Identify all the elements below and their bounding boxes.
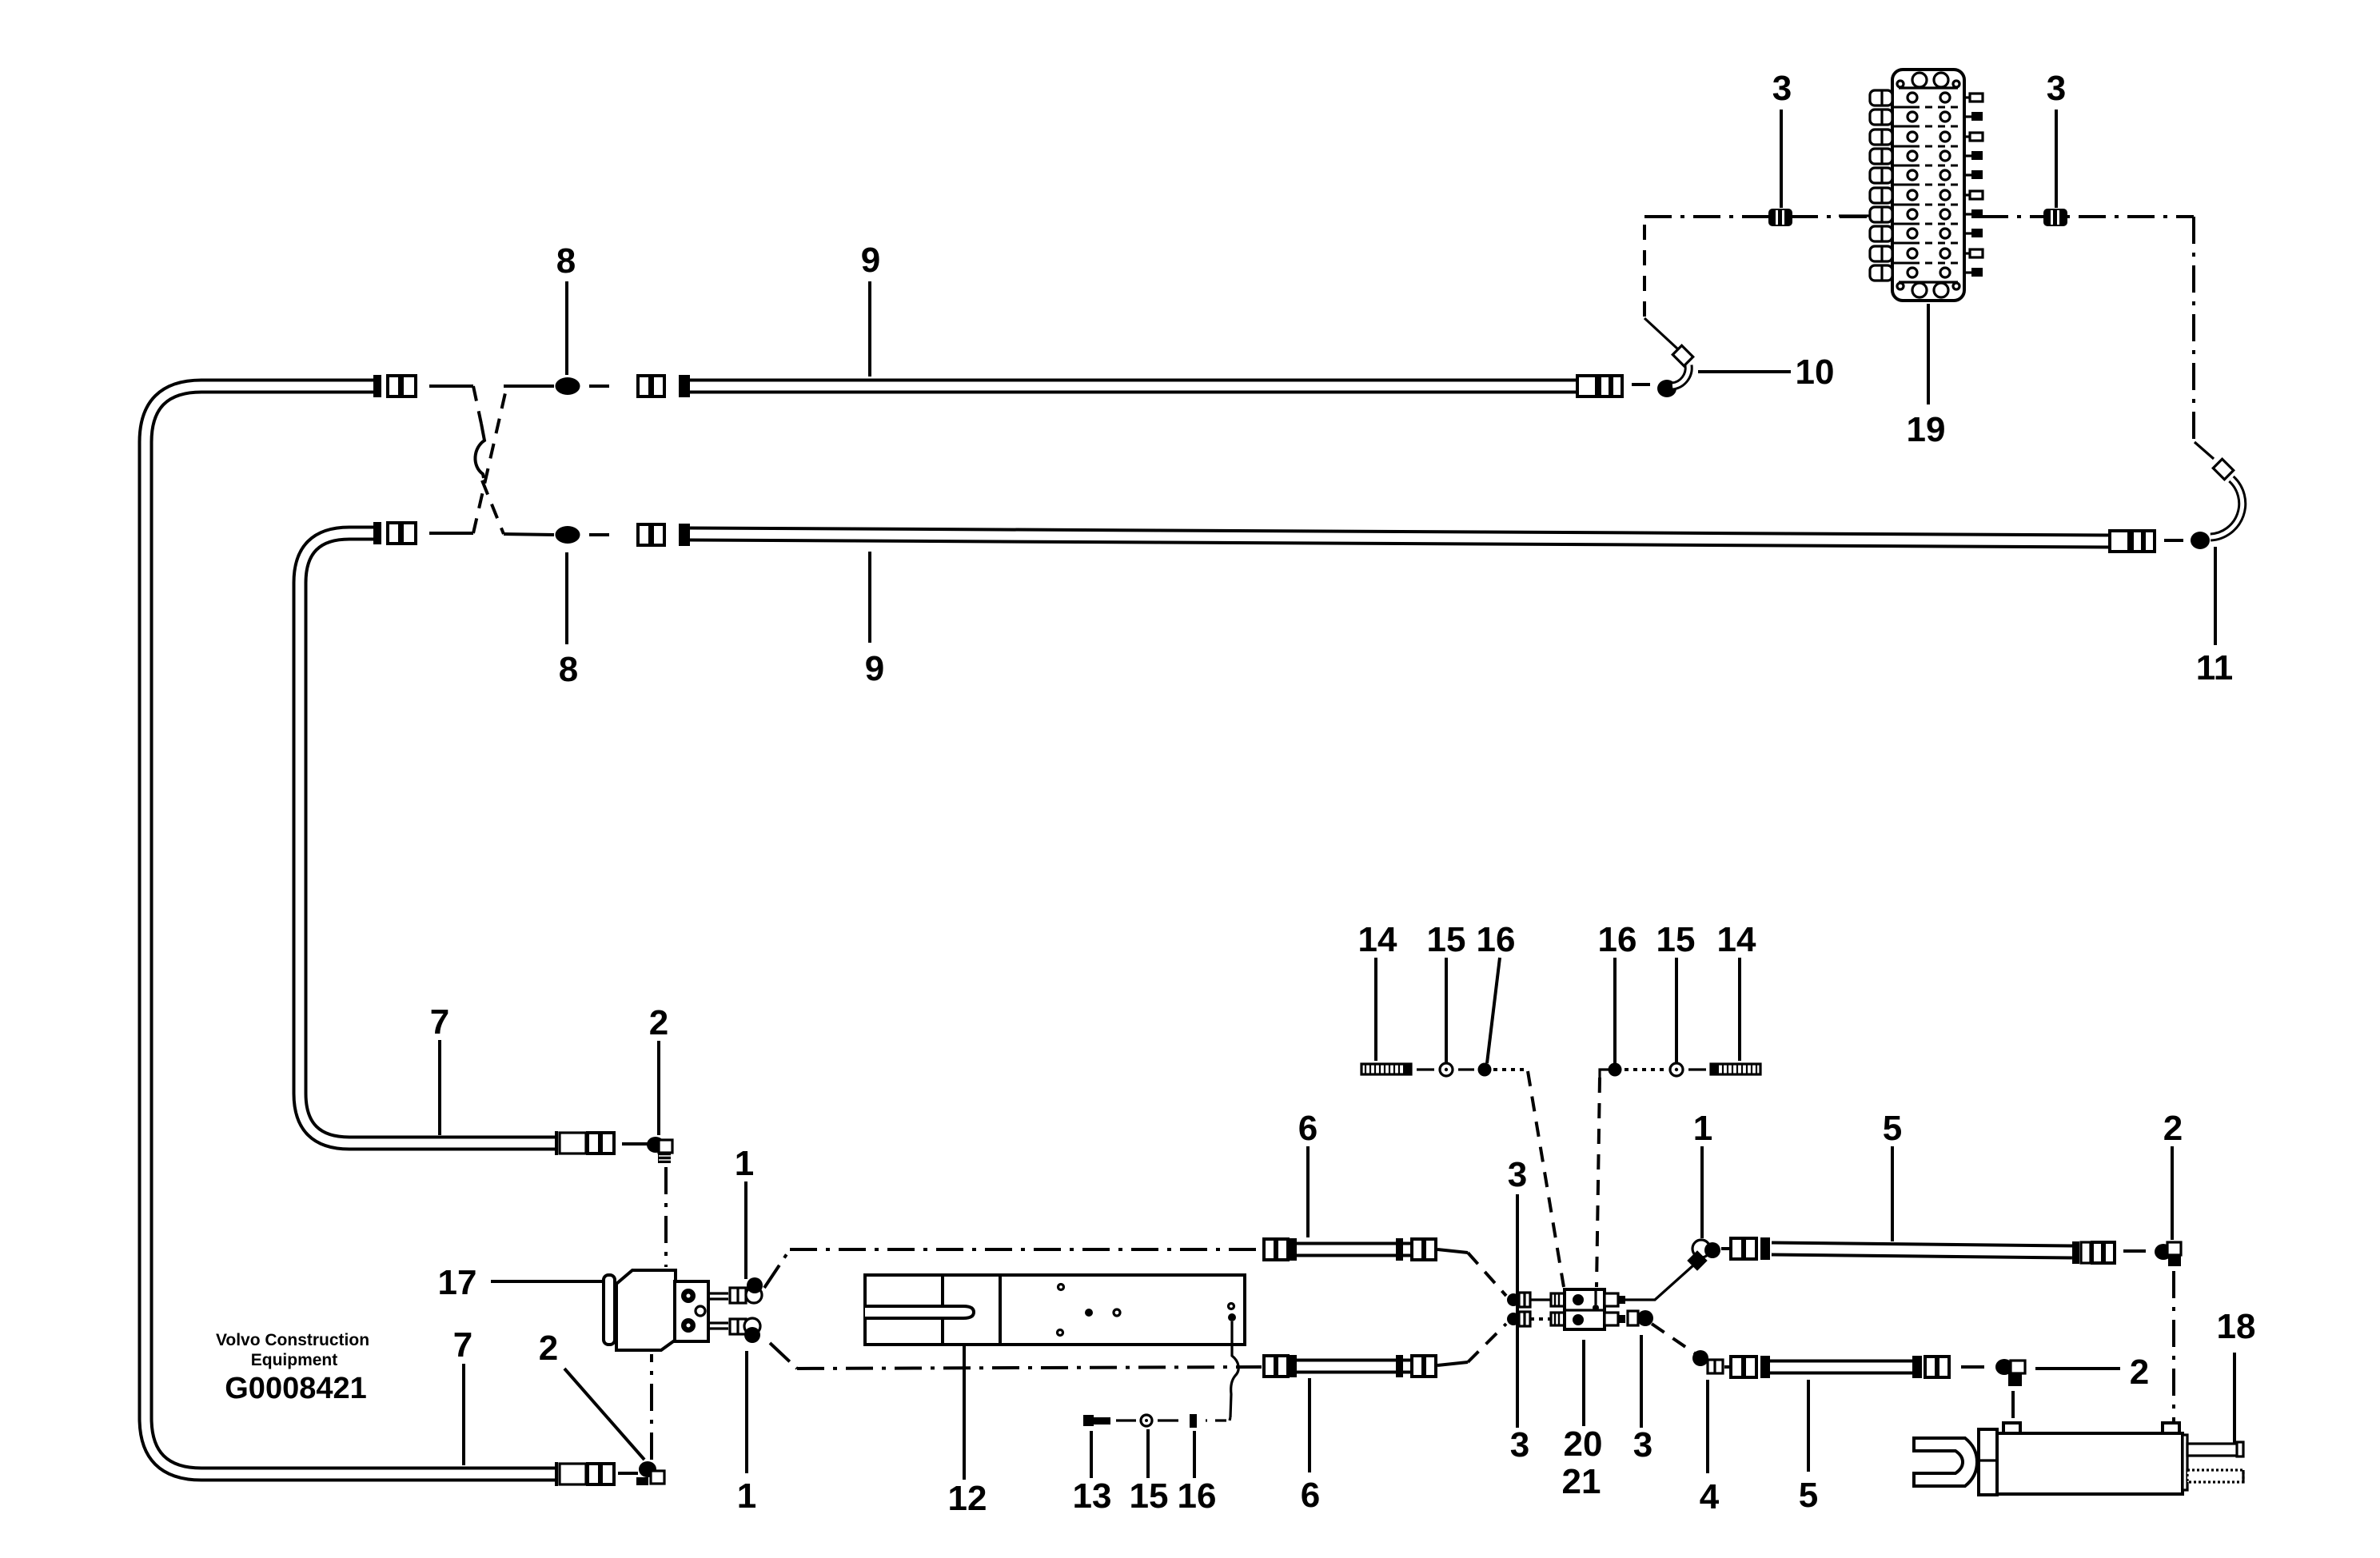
fitting hose 5 upper right bbox=[2072, 1241, 2115, 1264]
wire dash 14-15 (left) bbox=[1417, 1068, 1434, 1070]
wire dash 8 to hose 9 (bottom) bbox=[589, 533, 609, 536]
wire 16 right to valve 20 (dashed vertical) bbox=[1600, 1070, 1609, 1078]
svg-text:3: 3 bbox=[1772, 69, 1792, 108]
wire elbow 3 to valve port (lower, dotted) bbox=[1530, 1317, 1551, 1321]
fitting on hose 7 upper end bbox=[556, 1131, 614, 1155]
wire from top fitting to crossing bbox=[429, 385, 473, 388]
cylinder 12 divider lines bbox=[941, 1275, 944, 1345]
hose 5 (upper) bbox=[1772, 1249, 2072, 1252]
cylinder 12 body bbox=[865, 1275, 1245, 1345]
wire 16 to valve 20 (dotted then dashed diagonal) bbox=[1493, 1068, 1527, 1071]
elbow 2 (top right) bbox=[2155, 1242, 2181, 1266]
svg-text:16: 16 bbox=[1477, 920, 1516, 959]
wire hose 6 upper to elbow 3 bbox=[1437, 1249, 1468, 1253]
fitting on hose 7 lower end bbox=[556, 1462, 614, 1486]
svg-text:Volvo Construction: Volvo Construction bbox=[216, 1331, 369, 1349]
hose 6 (lower) bbox=[1287, 1359, 1412, 1374]
stud 14 (right) bbox=[1711, 1063, 1760, 1075]
elbow 3 (lower left of valve 20) bbox=[1507, 1312, 1530, 1326]
wire crossing to fitting 8 (top) bbox=[504, 385, 554, 388]
wire crossing to fitting 8 (bottom) bbox=[504, 534, 554, 535]
svg-text:Equipment: Equipment bbox=[251, 1351, 338, 1369]
wire dash hose7 to elbow 2 (upper) bbox=[622, 1142, 654, 1146]
wire fitting 3 to elbow 4 (dashed) bbox=[1652, 1324, 1695, 1353]
fitting on hose 9 left end (upper) bbox=[638, 375, 690, 397]
svg-text:3: 3 bbox=[1508, 1155, 1527, 1194]
elbow 2 (middle right) bbox=[1995, 1359, 2025, 1386]
wire elbow 2 to swivel bottom (dash-dot) bbox=[650, 1354, 653, 1460]
elbow 2 (lower left) bbox=[636, 1461, 664, 1485]
svg-text:18: 18 bbox=[2217, 1307, 2256, 1346]
wire dash hose 5 lower to elbow 2 bbox=[1961, 1365, 1984, 1369]
wire hexagon upper (dash-dot over cylinder 12) bbox=[790, 1248, 1262, 1251]
wire dash elbow 4 to hose 5 lower bbox=[1724, 1365, 1730, 1369]
svg-text:2: 2 bbox=[2130, 1353, 2149, 1392]
wire corner to pin 16 (dashed) bbox=[1230, 1417, 1230, 1421]
fitting hose 5 upper left bbox=[1731, 1237, 1770, 1260]
svg-text:11: 11 bbox=[2196, 648, 2234, 687]
swivel 17 body bbox=[616, 1270, 676, 1350]
wire elbow 3 to valve port (upper) bbox=[1530, 1298, 1551, 1301]
elbow 11 bbox=[2191, 459, 2242, 549]
wire dash 13 to 15 bbox=[1116, 1419, 1136, 1421]
wire dash 8 to hose 9 (top) bbox=[589, 385, 609, 388]
swivel 17 flange bbox=[604, 1275, 615, 1345]
elbow 3 (upper left of valve 20) bbox=[1507, 1293, 1530, 1307]
cylinder 18 left boss bbox=[2003, 1423, 2020, 1433]
fitting 8 (bottom) bbox=[556, 526, 580, 544]
svg-text:9: 9 bbox=[861, 241, 880, 280]
wire elbow 2 to swivel top (dash-dot) bbox=[664, 1167, 668, 1267]
svg-text:15: 15 bbox=[1130, 1476, 1169, 1516]
svg-text:20: 20 bbox=[1564, 1425, 1603, 1464]
svg-text:19: 19 bbox=[1907, 410, 1946, 449]
washer 15 (small) bbox=[1141, 1415, 1152, 1426]
svg-text:9: 9 bbox=[865, 649, 884, 688]
svg-text:3: 3 bbox=[1633, 1425, 1652, 1464]
svg-text:1: 1 bbox=[1693, 1109, 1712, 1148]
fitting on hose 7 end (second run) bbox=[373, 522, 416, 544]
valve 20 right port stub (lower) bbox=[1605, 1313, 1625, 1325]
fitting 3 (left of valve 19) bbox=[1768, 209, 1792, 226]
svg-text:G0008421: G0008421 bbox=[225, 1372, 367, 1405]
cylinder 18 clevis fork bbox=[1914, 1438, 1977, 1486]
elbow 1 (at swivel, lower) bbox=[730, 1318, 760, 1343]
pin 16 bbox=[1190, 1414, 1197, 1428]
svg-text:1: 1 bbox=[737, 1476, 756, 1516]
wire dash hose9 to elbow 10 bbox=[1632, 383, 1650, 386]
hose 7 (lower long hose, left vertical + bottom run) bbox=[146, 386, 556, 1474]
wire dash 15-14 (right) bbox=[1688, 1068, 1706, 1070]
svg-text:7: 7 bbox=[453, 1325, 472, 1365]
wire top center line (dash-dot left of valve 19) bbox=[1644, 215, 1869, 218]
cylinder 18 upper rod bbox=[2187, 1442, 2243, 1456]
svg-text:6: 6 bbox=[1301, 1476, 1320, 1515]
fitting 8 (top) bbox=[556, 377, 580, 395]
svg-text:2: 2 bbox=[649, 1003, 668, 1042]
fitting on hose 9 right end (lower) bbox=[2110, 530, 2155, 552]
svg-text:12: 12 bbox=[948, 1479, 987, 1518]
wire dash 15 to 16 bbox=[1158, 1419, 1178, 1421]
cylinder 18 lower rod (threaded) bbox=[2187, 1470, 2243, 1482]
cylinder 18 right boss bbox=[2163, 1423, 2179, 1433]
svg-text:2: 2 bbox=[539, 1329, 558, 1368]
swivel port stub (lower) bbox=[708, 1323, 728, 1329]
svg-text:5: 5 bbox=[1883, 1109, 1902, 1148]
valve 20/21 body bbox=[1565, 1289, 1605, 1329]
fitting hose 6 lower left bbox=[1264, 1355, 1297, 1377]
svg-text:15: 15 bbox=[1427, 920, 1466, 959]
wire top center line (dash-dot right of valve 19) bbox=[1981, 215, 2194, 218]
wire crossing (dashed X with hop) bbox=[473, 386, 481, 424]
cylinder 18 end cap bbox=[2183, 1435, 2187, 1490]
cylinder 18 rod-end collar bbox=[1979, 1429, 1997, 1495]
swivel port stub (upper) bbox=[708, 1293, 728, 1299]
fitting hose 6 upper right bbox=[1396, 1238, 1436, 1261]
wire from cylinder 12 port dot down (with hop) bbox=[1230, 1321, 1238, 1417]
wire elbow 2 to cylinder 18 boss (dash-dot) bbox=[2172, 1271, 2175, 1421]
wire hexagon upper diagonal from elbow 1 bbox=[764, 1249, 790, 1288]
svg-text:2: 2 bbox=[2163, 1109, 2183, 1148]
fitting hose 5 lower left bbox=[1731, 1356, 1770, 1378]
fitting 3 (right of valve 20) bbox=[1628, 1310, 1653, 1326]
fitting on hose 7 end (top run) bbox=[373, 375, 416, 397]
wire hexagon lower diagonal from elbow 1 bbox=[770, 1343, 797, 1369]
svg-text:7: 7 bbox=[430, 1002, 449, 1042]
wire hexagon lower (dash-dot under cylinder 12) bbox=[797, 1367, 1262, 1369]
washer 15 (left) bbox=[1440, 1063, 1453, 1076]
fitting hose 5 lower right bbox=[1912, 1356, 1949, 1378]
valve 20 left port stub (upper) bbox=[1551, 1293, 1565, 1306]
wire right corner vertical (dash-dot) bbox=[2192, 217, 2195, 439]
wire dash elbow 11 to hose 9 bbox=[2164, 539, 2183, 542]
svg-text:3: 3 bbox=[1510, 1425, 1529, 1464]
svg-text:17: 17 bbox=[438, 1263, 477, 1302]
washer 15 (right) bbox=[1670, 1063, 1683, 1076]
wire elbow 2 to cylinder 18 left boss (dash-dot) bbox=[2011, 1391, 2015, 1421]
svg-text:16: 16 bbox=[1178, 1476, 1217, 1516]
elbow 10 bbox=[1657, 345, 1693, 397]
svg-text:14: 14 bbox=[1358, 920, 1397, 959]
wire from second fitting to crossing bbox=[429, 532, 473, 535]
stud 14 (left) bbox=[1361, 1063, 1411, 1075]
cylinder 18 barrel bbox=[1997, 1433, 2183, 1494]
cylinder 12 rod slot bbox=[865, 1306, 974, 1318]
fitting 3 (right of valve 19) bbox=[2043, 209, 2067, 226]
svg-text:21: 21 bbox=[1562, 1462, 1601, 1501]
elbow 4 bbox=[1692, 1350, 1723, 1373]
elbow 2 (upper left) bbox=[647, 1137, 672, 1163]
wire dotted 16-15 (right) bbox=[1625, 1068, 1664, 1071]
wire dash elbow 1 to hose 5 bbox=[1721, 1247, 1729, 1250]
swivel 17 port block bbox=[675, 1281, 708, 1341]
valve 19 left plugs bbox=[1870, 90, 1892, 281]
screw 13 bbox=[1083, 1415, 1110, 1426]
svg-text:10: 10 bbox=[1796, 353, 1835, 392]
svg-text:8: 8 bbox=[556, 241, 576, 281]
elbow 1 (right) bbox=[1687, 1240, 1720, 1271]
wire valve 20 upper port to elbow 1 bbox=[1625, 1265, 1693, 1300]
valve 20 right port stub (upper) bbox=[1605, 1293, 1625, 1306]
ball 16 (right) bbox=[1609, 1063, 1622, 1077]
svg-text:16: 16 bbox=[1598, 920, 1637, 959]
fitting hose 6 lower right bbox=[1396, 1355, 1436, 1377]
valve 19 right nipples bbox=[1964, 94, 1983, 277]
fitting hose 6 upper left bbox=[1264, 1238, 1297, 1261]
cylinder 12 detail dots bbox=[1058, 1285, 1064, 1290]
hose 9 (lower long hose) bbox=[690, 534, 2110, 541]
wire corner to elbow 11 bbox=[2195, 442, 2214, 459]
valve 19 port circles bbox=[1908, 93, 1950, 277]
hose 6 (upper) bbox=[1287, 1242, 1412, 1257]
wire riser (vertical dashed) bbox=[1643, 222, 1646, 317]
elbow 1 (at swivel, upper) bbox=[730, 1277, 763, 1303]
fitting on hose 9 right end (upper) bbox=[1577, 375, 1622, 397]
svg-text:8: 8 bbox=[559, 650, 578, 689]
hose 7 (upper hose, second vertical + middle run) bbox=[300, 533, 556, 1143]
wire dash 15-16 (left) bbox=[1458, 1068, 1474, 1070]
svg-text:14: 14 bbox=[1717, 920, 1756, 959]
hose 9 (upper long hose) bbox=[690, 379, 1577, 394]
valve block 19 bbox=[1892, 70, 1964, 301]
svg-text:3: 3 bbox=[2047, 69, 2066, 108]
wire dash hose7 lower to elbow 2 bbox=[618, 1472, 638, 1475]
wire elbow 10 to riser corner bbox=[1644, 318, 1677, 349]
svg-text:5: 5 bbox=[1799, 1476, 1818, 1515]
ball 16 (left) bbox=[1478, 1063, 1492, 1077]
svg-text:1: 1 bbox=[735, 1144, 754, 1183]
svg-text:4: 4 bbox=[1700, 1477, 1720, 1516]
hose 5 (lower) bbox=[1770, 1360, 1912, 1375]
svg-text:6: 6 bbox=[1298, 1109, 1318, 1148]
valve 19 center port line bbox=[1839, 214, 1870, 217]
fitting on hose 9 left end (lower) bbox=[638, 524, 690, 546]
valve 19 row separator lines bbox=[1892, 107, 1963, 263]
wire dash hose 5 to elbow 2 bbox=[2123, 1249, 2146, 1253]
svg-text:13: 13 bbox=[1073, 1476, 1112, 1516]
svg-text:15: 15 bbox=[1656, 920, 1696, 959]
wire hose 6 lower to elbow 3 bbox=[1437, 1362, 1468, 1365]
valve 20 left port stub (lower) bbox=[1551, 1313, 1565, 1325]
